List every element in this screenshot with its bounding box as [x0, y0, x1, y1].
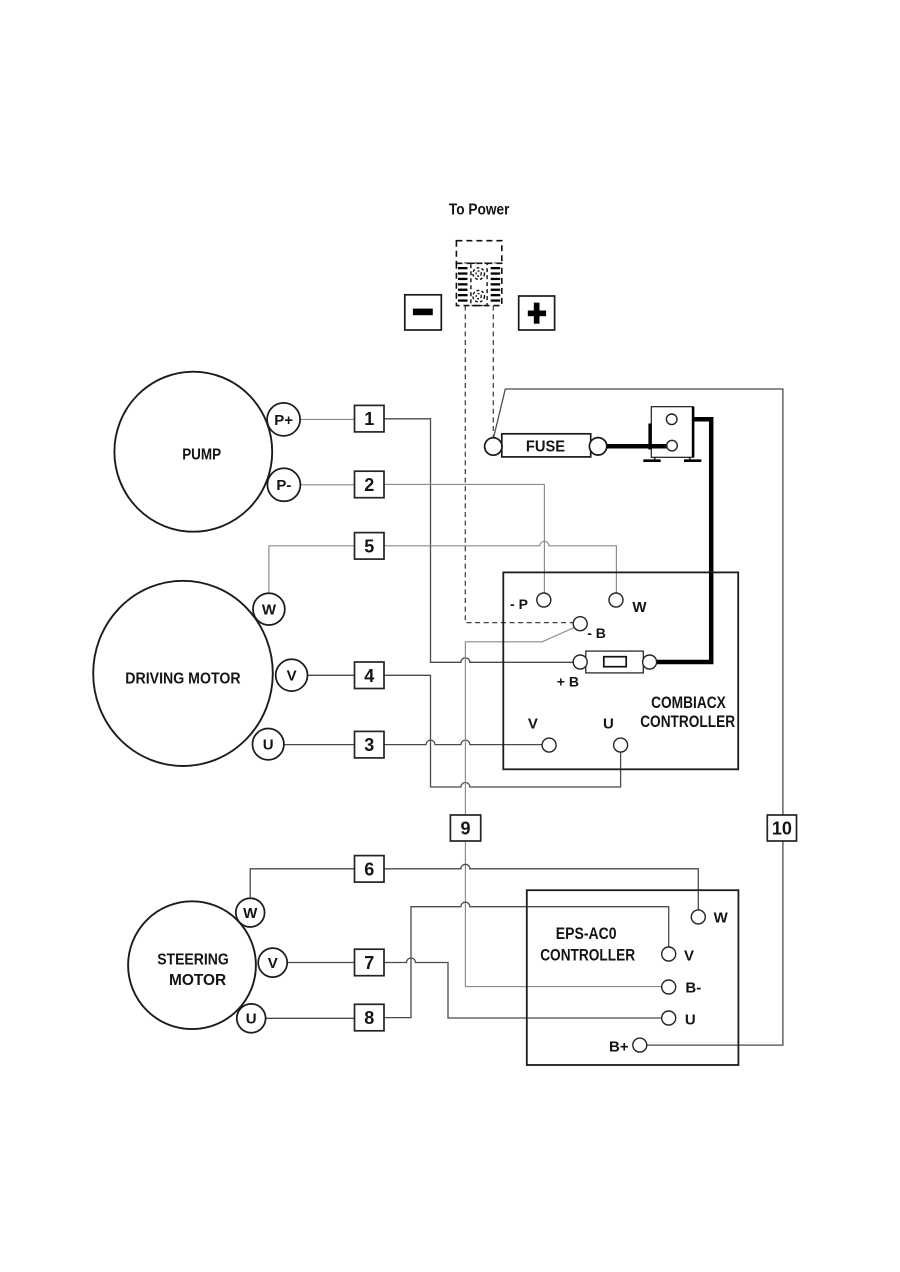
wire: box 5 to COMBIACX W terminal (net 5, hop over net 2) [384, 541, 616, 593]
contactor coil bar [648, 424, 651, 450]
svg-text:W: W [262, 602, 277, 619]
battery minus symbol [405, 295, 442, 330]
svg-text:P+: P+ [274, 412, 293, 429]
connector box 9 [450, 815, 480, 841]
wire: box 8 to EPS V terminal (net 8, hop over net 9) [384, 902, 669, 1017]
EPS-AC0 controller box [527, 890, 739, 1065]
wire: steering motor W to box 6 [250, 869, 354, 898]
pump motor [114, 372, 272, 532]
wire: fuse to box 10 to EPS B+ (net 10) [494, 389, 783, 1045]
connector box 7 [355, 949, 385, 976]
svg-text:U: U [263, 737, 274, 754]
fuse left terminal circle [485, 438, 502, 455]
wire: P- to box 2 [301, 484, 355, 486]
svg-text:U: U [246, 1011, 257, 1028]
svg-text:P-: P- [276, 477, 291, 494]
svg-text:9: 9 [460, 818, 470, 838]
svg-text:FUSE: FUSE [526, 438, 566, 455]
connector box 2 [355, 471, 385, 498]
svg-text:W: W [714, 909, 729, 926]
terminal U (steering motor) [237, 1004, 266, 1033]
contactor terminal circle bottom [667, 440, 678, 451]
svg-text:B-: B- [685, 980, 701, 997]
wire: COMBIACX -B to EPS B- through box 9 (net 9) [465, 627, 661, 986]
battery connector (dashed outline) [456, 241, 501, 306]
wire: driving motor U to box 3 [284, 744, 355, 746]
connector box 5 [355, 533, 385, 560]
wire: P+ to box 1 [300, 418, 354, 420]
driving motor [93, 581, 273, 766]
connector box 8 [355, 1004, 385, 1031]
svg-text:7: 7 [364, 953, 374, 973]
connector box 3 [355, 731, 385, 758]
svg-text:V: V [528, 716, 538, 733]
contactor (line contactor) [607, 407, 702, 461]
battery cable: contactor to +B (thick) [657, 419, 712, 662]
svg-text:W: W [243, 905, 258, 922]
COMBIACX terminal W [609, 593, 647, 616]
svg-text:MOTOR: MOTOR [169, 972, 226, 989]
EPS terminal U [662, 1011, 696, 1028]
svg-text:COMBIACX: COMBIACX [651, 693, 726, 712]
svg-text:- P: - P [510, 596, 528, 612]
wire: box 2 to -P terminal (net 2) [384, 484, 544, 593]
connector box 10 [767, 815, 796, 841]
svg-text:5: 5 [364, 536, 374, 556]
connector spring contacts right [491, 267, 501, 302]
battery plus symbol [519, 296, 555, 330]
svg-text:U: U [603, 716, 614, 733]
svg-text:U: U [685, 1011, 696, 1028]
wire: box 1 to +B terminal (net 1) [384, 419, 573, 663]
terminal V (driving motor) [276, 659, 308, 691]
wire: steering motor U to box 8 [266, 1017, 355, 1019]
svg-text:To Power: To Power [449, 201, 510, 218]
terminal W (steering motor) [236, 898, 265, 927]
svg-text:10: 10 [772, 818, 792, 838]
svg-text:V: V [268, 955, 278, 972]
wire: driving motor V to box 4 [308, 674, 355, 676]
svg-text:1: 1 [364, 409, 374, 429]
svg-text:V: V [684, 948, 694, 965]
EPS terminal B+ [609, 1038, 647, 1055]
wire: battery minus pin to -B (dashed) [465, 306, 573, 623]
EPS terminal W [691, 909, 728, 926]
svg-text:STEERING: STEERING [157, 952, 229, 969]
svg-text:CONTROLLER: CONTROLLER [640, 712, 735, 731]
terminal P+ [267, 403, 300, 436]
wire: box 7 to EPS U terminal (net 7, hop over net 8) [384, 958, 662, 1018]
svg-text:EPS-AC0: EPS-AC0 [556, 924, 617, 943]
contactor terminal circle top [666, 414, 677, 425]
fuse right terminal circle [589, 438, 606, 455]
connector box 1 [355, 405, 385, 432]
wire: steering motor V to box 7 [287, 962, 354, 964]
terminal W (driving motor) [253, 593, 285, 625]
terminal V (steering motor) [258, 948, 287, 977]
connector box 6 [355, 856, 385, 883]
battery cable: fuse to contactor (thick) [607, 444, 667, 449]
COMBIACX terminal V [528, 716, 556, 753]
svg-text:6: 6 [364, 859, 374, 879]
terminal P- [267, 468, 300, 501]
terminal U (driving motor) [253, 729, 284, 760]
svg-text:3: 3 [364, 735, 374, 755]
svg-text:8: 8 [364, 1008, 374, 1028]
COMBIACX terminal -P [510, 593, 551, 612]
svg-text:B+: B+ [609, 1038, 629, 1055]
svg-text:+ B: + B [557, 674, 579, 690]
wire: box 3 to COMBIACX V terminal (net 3, hops over net 4 and net 9) [384, 740, 542, 745]
steering motor [128, 901, 256, 1029]
connector box 4 [355, 662, 385, 689]
wire: battery plus pin to fuse (dashed) [492, 306, 494, 438]
fuse F1 [485, 434, 607, 457]
svg-text:4: 4 [364, 666, 374, 686]
svg-text:CONTROLLER: CONTROLLER [540, 946, 635, 965]
wire: driving motor W to box 5 [269, 546, 355, 594]
wire: box 4 to COMBIACX U terminal (net 4, hop over net 9) [384, 675, 621, 787]
svg-text:2: 2 [364, 475, 374, 495]
connector contact circles [473, 268, 485, 280]
contactor mounting feet [654, 457, 691, 459]
connector spring contacts left [458, 267, 468, 302]
wire: box 6 to EPS W terminal (net 6, hop over net 9) [384, 864, 698, 910]
COMBIACX terminal -B [573, 617, 606, 641]
svg-text:PUMP: PUMP [182, 447, 221, 464]
svg-text:- B: - B [587, 625, 606, 641]
svg-text:DRIVING MOTOR: DRIVING MOTOR [125, 671, 240, 688]
COMBIACX controller box [503, 572, 738, 769]
EPS terminal V [662, 947, 694, 965]
COMBIACX terminal +B (connector with circles) [557, 651, 657, 690]
EPS terminal B- [662, 980, 702, 997]
COMBIACX terminal U [603, 716, 628, 753]
svg-text:W: W [632, 599, 647, 616]
svg-text:V: V [287, 668, 297, 685]
